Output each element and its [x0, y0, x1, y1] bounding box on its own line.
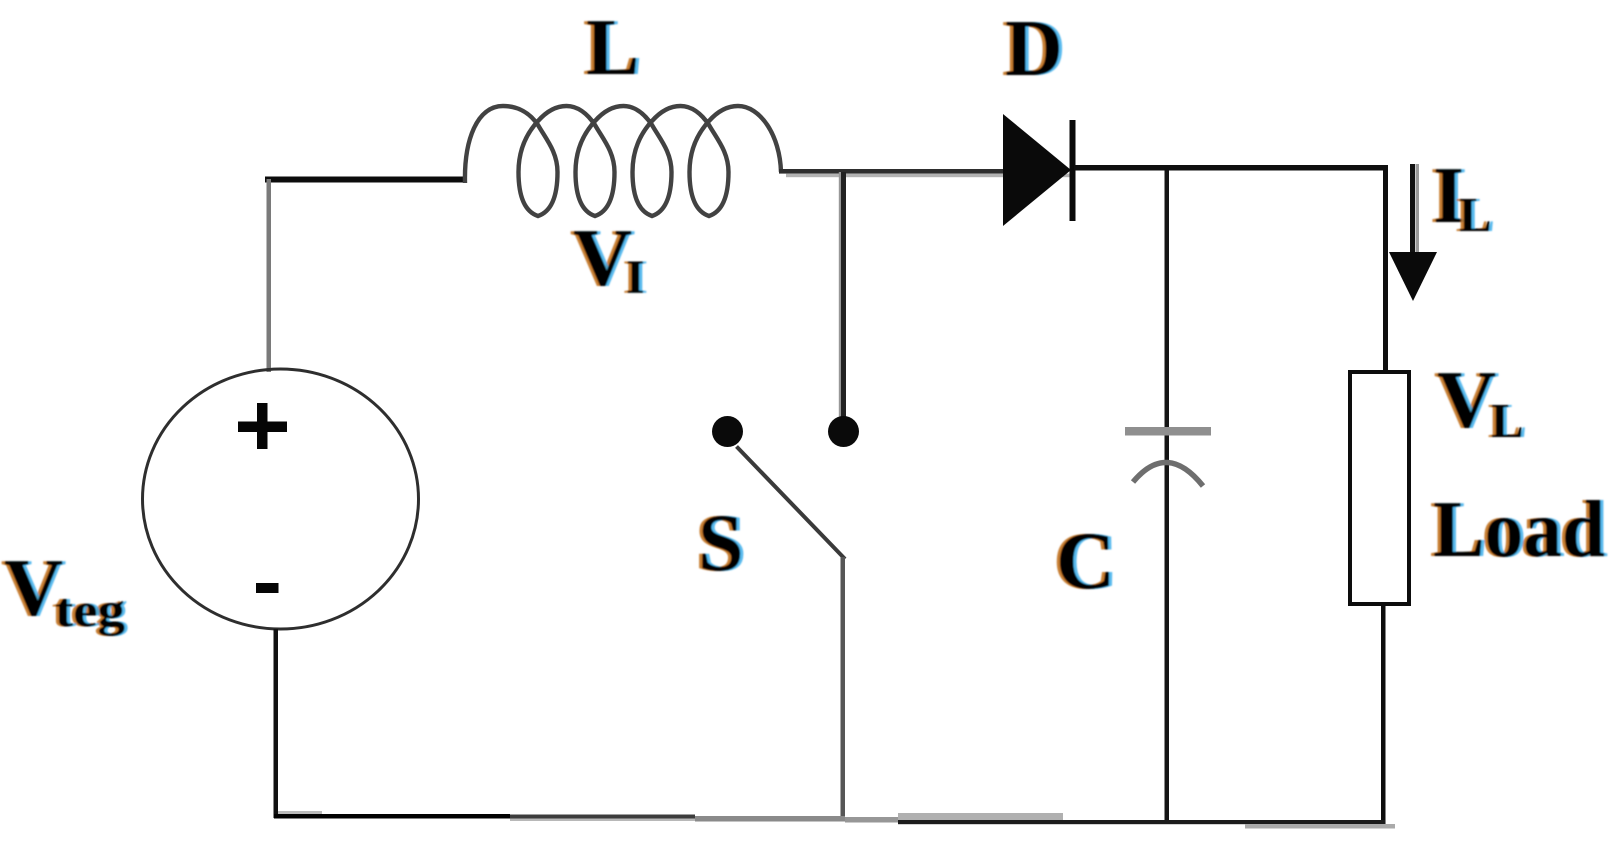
label C capacitor: [1053, 515, 1119, 606]
wire bottom rail segment 1: [274, 814, 510, 819]
label IL current: [1430, 152, 1495, 242]
wire top right horizontal from diode to top right corner: [1074, 165, 1387, 171]
voltage source plus sign: [238, 403, 287, 449]
wire bottom rail segment 2: [510, 815, 695, 819]
svg-text:C: C: [1056, 515, 1115, 606]
current arrow IL shaft: [1410, 164, 1415, 255]
label VI node: [570, 212, 648, 304]
diode D triangle anode: [1003, 114, 1071, 226]
inductor L coil: [465, 106, 781, 216]
wire bottom rail segment 5 dark: [898, 820, 1385, 824]
wire bottom rail gray stub left: [278, 811, 322, 815]
wire switch branch vertical lower: [841, 557, 846, 818]
svg-text:I: I: [626, 251, 645, 304]
diode D cathode bar: [1070, 120, 1076, 221]
wire top middle horizontal from inductor to diode: [779, 169, 1005, 174]
label D diode: [1002, 5, 1066, 93]
label Vteg: [1, 542, 128, 637]
wire left vertical from top wire down to source top: [267, 179, 272, 372]
svg-text:L: L: [1491, 393, 1524, 448]
wire right vertical from top corner to load: [1383, 165, 1388, 371]
svg-text:L: L: [1459, 187, 1492, 242]
wire load bottom vertical: [1381, 606, 1386, 825]
current arrow IL head: [1389, 252, 1437, 301]
svg-text:L: L: [586, 4, 639, 92]
voltage source Vteg circle: [143, 369, 419, 629]
svg-text:D: D: [1005, 5, 1063, 93]
wire top-left horizontal from source to inductor: [265, 177, 465, 183]
wire bottom rail segment 4: [845, 817, 905, 823]
svg-text:teg: teg: [55, 584, 125, 637]
wire capacitor branch vertical: [1165, 170, 1170, 822]
wire bottom rail gray under right: [1245, 824, 1395, 829]
wire switch branch vertical upper: [839, 172, 841, 419]
capacitor C top plate: [1125, 427, 1211, 436]
capacitor C bottom curved plate: [1133, 462, 1203, 486]
label L inductor: [583, 4, 643, 92]
load resistor rectangle: [1350, 372, 1409, 604]
wire bottom rail segment 3: [695, 816, 845, 822]
switch S left contact dot: [712, 416, 743, 447]
voltage source minus sign: [256, 583, 279, 593]
switch S right contact dot: [828, 416, 859, 447]
wire bottom-left vertical from source bottom to bottom rail: [274, 629, 279, 818]
svg-text:Load: Load: [1433, 486, 1605, 574]
label S switch: [695, 497, 747, 588]
switch S blade: [737, 447, 846, 560]
label Load: [1430, 486, 1608, 574]
label VL node: [1434, 354, 1527, 448]
svg-text:S: S: [698, 497, 744, 588]
